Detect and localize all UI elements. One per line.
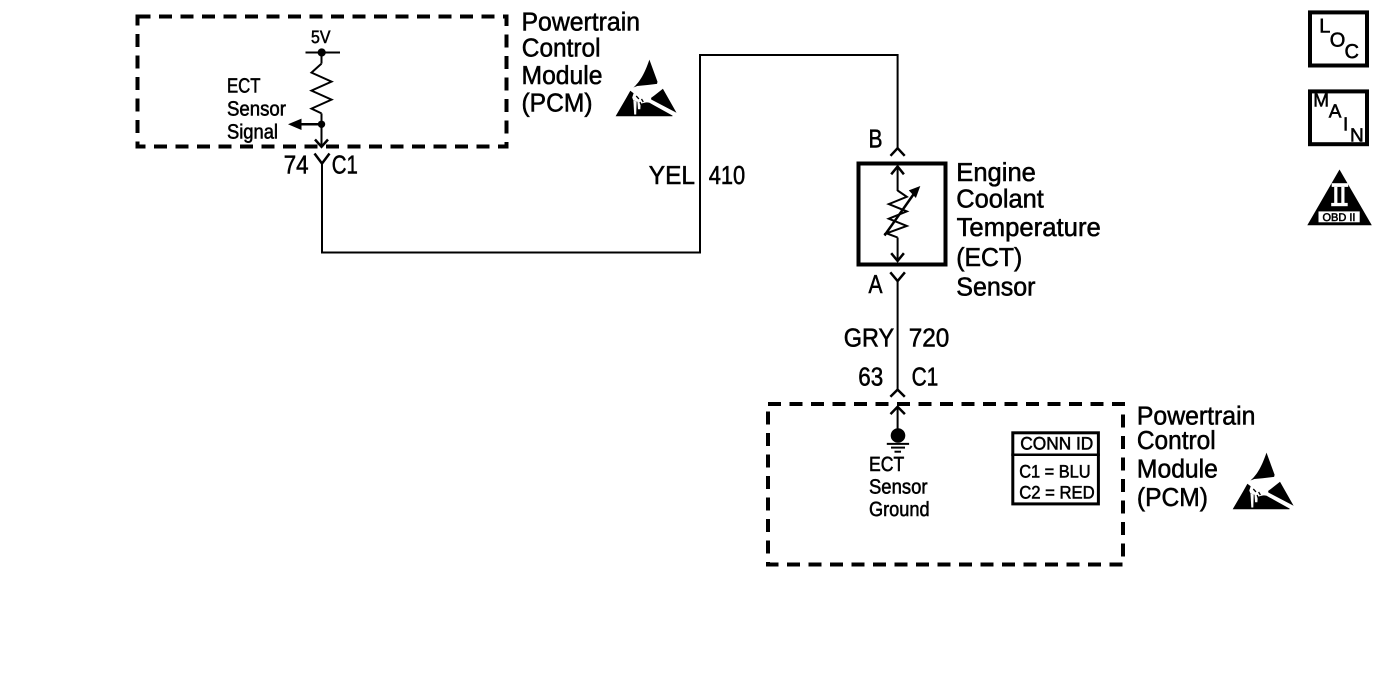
ground dot — [891, 428, 906, 443]
svg-text:Signal: Signal — [227, 120, 278, 143]
svg-text:C1: C1 — [332, 149, 358, 179]
svg-text:Ground: Ground — [869, 498, 930, 521]
svg-text:Sensor: Sensor — [869, 475, 928, 498]
signal stub wire (to left) — [298, 123, 322, 126]
svg-text:M: M — [1313, 91, 1329, 112]
svg-text:YEL: YEL — [649, 160, 695, 190]
OBD II roman numeral II (white) — [1331, 183, 1348, 206]
svg-text:Module: Module — [1137, 454, 1218, 484]
Engine Coolant Temperature (ECT) Sensor label — [956, 157, 1100, 301]
connector symbol Y at pin A — [890, 272, 905, 281]
arrowhead (open, pointing down at box edge) — [315, 140, 328, 147]
ground bar 2 — [891, 447, 905, 449]
wire signal node to box edge — [321, 124, 323, 145]
junction dot on 5V rail — [318, 48, 326, 56]
ECT Sensor Signal label — [227, 74, 286, 143]
ESD warning icon (bottom) — [1233, 453, 1294, 510]
esd apex cone — [633, 60, 657, 88]
esd knuckle ticks — [636, 96, 643, 107]
svg-text:Module: Module — [522, 60, 603, 90]
ESD warning icon (top) — [616, 60, 677, 117]
node: ECT sensor signal junction dot — [318, 121, 325, 128]
thermistor diagonal arrow shaft — [885, 192, 916, 236]
svg-text:OBD II: OBD II — [1322, 212, 1355, 224]
svg-text:CONN ID: CONN ID — [1020, 433, 1093, 453]
svg-text:(ECT): (ECT) — [956, 242, 1022, 272]
signal arrowhead (filled, pointing left) — [288, 119, 302, 130]
svg-text:74: 74 — [284, 149, 309, 179]
svg-text:B: B — [869, 123, 883, 153]
wire: pin 74 to sensor pin B (YEL 410 run) — [322, 55, 898, 253]
wire 5V rail to resistor — [321, 53, 323, 64]
ground arrowhead (open, pointing up into box) — [891, 407, 905, 414]
svg-text:410: 410 — [709, 160, 746, 190]
ECT Sensor Ground label — [869, 453, 930, 521]
sensor internal down arrow (open) — [897, 238, 899, 261]
connector symbol Y at pin 74 — [315, 154, 330, 164]
svg-text:C1 = BLU: C1 = BLU — [1019, 461, 1090, 481]
ground bar 1 — [887, 443, 909, 445]
PCM module box 2 (bottom, dashed) — [768, 404, 1123, 565]
svg-text:63: 63 — [858, 362, 883, 392]
svg-text:C2 = RED: C2 = RED — [1019, 483, 1094, 503]
sensor internal up arrow (open) — [891, 167, 904, 175]
LOC icon box — [1310, 12, 1367, 65]
svg-text:Sensor: Sensor — [227, 98, 286, 121]
svg-text:L: L — [1319, 15, 1330, 37]
svg-text:Control: Control — [522, 33, 601, 63]
svg-text:(PCM): (PCM) — [522, 88, 593, 118]
ground bar 3 — [895, 451, 902, 453]
esd right piece — [651, 89, 676, 113]
svg-text:(PCM): (PCM) — [1137, 482, 1208, 512]
svg-text:O: O — [1330, 30, 1346, 52]
svg-text:720: 720 — [909, 323, 950, 353]
ECT sensor box — [859, 164, 946, 265]
wire resistor to signal node — [321, 113, 323, 124]
svg-text:Engine: Engine — [956, 157, 1036, 187]
CONN ID table divider — [1011, 454, 1100, 457]
svg-text:Control: Control — [1137, 425, 1216, 455]
thermistor diagonal arrowhead — [909, 186, 921, 198]
svg-text:C1: C1 — [912, 362, 939, 392]
OBD II label plate — [1318, 210, 1361, 223]
svg-text:Temperature: Temperature — [957, 212, 1101, 242]
svg-text:A: A — [1329, 101, 1342, 122]
esd white finger 2 — [637, 102, 640, 109]
Powertrain Control Module (PCM) label top — [522, 7, 641, 118]
svg-text:Sensor: Sensor — [956, 271, 1036, 301]
MAIN icon box — [1310, 91, 1367, 144]
svg-text:Coolant: Coolant — [956, 184, 1044, 214]
svg-text:I: I — [1343, 115, 1348, 136]
OBD II icon triangle — [1307, 170, 1372, 226]
CONN ID table box — [1013, 433, 1099, 504]
wire arrow to ground dot — [897, 407, 899, 429]
resistor (PCM pull-up) — [312, 64, 332, 114]
svg-text:N: N — [1350, 126, 1364, 147]
svg-text:ECT: ECT — [869, 453, 905, 476]
svg-text:GRY: GRY — [844, 323, 894, 353]
wire: pin A down to PCM — [897, 281, 899, 390]
svg-text:ECT: ECT — [227, 74, 261, 97]
svg-text:C: C — [1345, 41, 1359, 63]
svg-text:5V: 5V — [311, 27, 330, 47]
svg-text:A: A — [869, 269, 884, 299]
connector chevron at pin 63 — [890, 390, 904, 397]
Powertrain Control Module (PCM) label bottom — [1137, 400, 1256, 512]
esd white finger 1 — [633, 101, 636, 115]
connector chevron at pin B — [891, 148, 905, 156]
esd lower-left mass with hand — [616, 91, 673, 116]
PCM module box 1 (top left, dashed) — [138, 17, 507, 147]
5V supply rail — [306, 52, 341, 54]
sensor thermistor zigzag — [887, 191, 907, 238]
